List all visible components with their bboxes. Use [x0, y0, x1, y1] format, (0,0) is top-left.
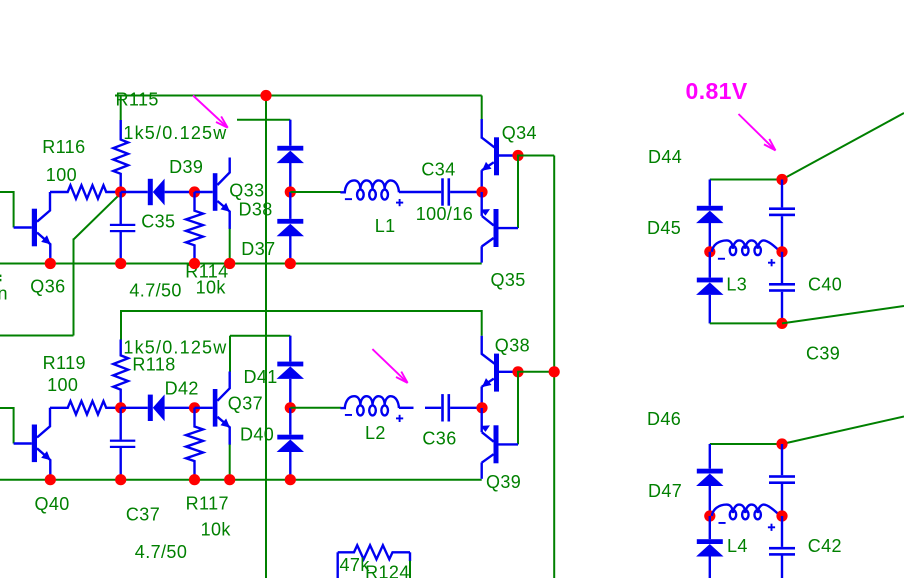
transistor Q37 body	[195, 389, 218, 427]
svg-text:Q38: Q38	[495, 336, 530, 356]
svg-text:C42: C42	[808, 536, 842, 556]
wire snubber2 top	[710, 443, 782, 445]
transistor Q38 base lead	[499, 371, 518, 373]
svg-text:C35: C35	[141, 211, 175, 231]
node junction D40 / rail	[285, 474, 296, 485]
transistor Q38 body	[494, 354, 499, 392]
svg-text:L3: L3	[726, 274, 747, 294]
node junction L3/C40	[776, 246, 787, 257]
capacitor C34	[399, 178, 482, 205]
resistor R124	[338, 545, 410, 578]
label D45	[647, 218, 681, 238]
transistor Q33 body	[195, 173, 218, 211]
svg-text:C37: C37	[126, 504, 160, 524]
capacitor C36	[425, 394, 482, 421]
svg-text:10k: 10k	[201, 519, 232, 539]
transistor Q34 body	[494, 137, 499, 175]
svg-text:100: 100	[46, 165, 77, 185]
svg-text:Q34: Q34	[502, 123, 537, 143]
transistor Q39 collector lead	[482, 454, 494, 479]
node junction Q33 emitter / rail	[224, 258, 235, 269]
wire long vertical bus	[265, 96, 267, 578]
svg-text:n: n	[0, 284, 8, 304]
svg-text:0.81V: 0.81V	[686, 78, 748, 104]
transistor Q36 body	[32, 209, 37, 247]
label D38	[239, 200, 273, 220]
label C40	[808, 274, 842, 294]
svg-text:D42: D42	[165, 379, 199, 399]
label Q36	[30, 277, 65, 297]
diode D42	[121, 394, 195, 421]
label R118	[132, 354, 175, 374]
label R114 value 10k	[196, 277, 227, 297]
node junction C36 / output	[476, 402, 487, 413]
label D37	[241, 239, 275, 259]
node junction D47/L4	[704, 510, 715, 521]
diode below L4 label	[696, 516, 723, 578]
label C34 value 100/16	[416, 204, 473, 224]
transistor Q34 emitter lead	[482, 162, 494, 192]
label D42	[165, 379, 199, 399]
wire Q37 emitter to rail	[229, 445, 231, 480]
wire Q38 collector drop	[481, 310, 483, 354]
wire clamp stub lower	[230, 336, 290, 372]
label R119 value 100	[47, 375, 78, 395]
node junction D39/R114/Q33 base	[189, 186, 200, 197]
svg-text:D41: D41	[244, 367, 278, 387]
capacitor C37	[110, 408, 135, 480]
wire snubber2 output diagonal	[782, 417, 904, 445]
transistor Q33 collector lead	[217, 158, 229, 186]
node junction R116/R115/C35/D39	[115, 186, 126, 197]
label L3	[726, 274, 747, 294]
transistor Q35 collector lead	[482, 238, 494, 263]
wire input elbow to Q36 base	[0, 191, 14, 228]
svg-text:D38: D38	[239, 200, 273, 220]
wire clamp node to L1	[290, 191, 341, 193]
wire snubber1 bottom	[710, 322, 782, 324]
wire R115 top stub	[120, 95, 122, 121]
node junction snubber1 bottom	[776, 318, 787, 329]
wire snubber1 top	[710, 179, 782, 181]
diode D47 (upper)	[696, 444, 723, 516]
label R114	[185, 261, 228, 281]
node junction Q34 base net	[512, 150, 523, 161]
label L2	[365, 423, 386, 443]
svg-text:D37: D37	[241, 239, 275, 259]
node junction top rail / bus	[260, 90, 271, 101]
svg-text:L2: L2	[365, 423, 386, 443]
transistor Q34 collector lead	[481, 137, 494, 147]
wire Q34 base net to right bus	[518, 156, 554, 578]
label L4	[727, 536, 748, 556]
wire Q34 collector to top rail	[481, 119, 483, 139]
svg-text:C39: C39	[806, 344, 840, 364]
label D40	[240, 425, 274, 445]
wire snubber1 bottom diagonal	[782, 306, 904, 323]
svg-text:D46: D46	[647, 409, 681, 429]
svg-text:1k5/0.125w: 1k5/0.125w	[123, 338, 227, 358]
svg-text:C34: C34	[421, 160, 455, 180]
node junction R117 / rail	[189, 474, 200, 485]
magenta probe arrow 0.81V	[739, 114, 776, 150]
label Q39	[486, 472, 521, 492]
label L1	[375, 216, 396, 236]
node junction D42/R117/Q37 base	[189, 402, 200, 413]
node junction snubber1 output	[776, 174, 787, 185]
transistor Q39 body	[494, 425, 519, 463]
node junction L4/C42	[776, 510, 787, 521]
node junction C35 / rail	[115, 258, 126, 269]
label D41	[244, 367, 278, 387]
inductor L3	[712, 240, 781, 266]
node junction Q38 base net	[512, 366, 523, 377]
node junction R119/R118/C37/D42	[115, 402, 126, 413]
label R115	[116, 90, 159, 110]
resistor R115	[113, 120, 128, 192]
node junction D37 / rail	[285, 258, 296, 269]
diode below L3 label	[696, 252, 723, 324]
svg-text:R116: R116	[42, 137, 85, 157]
wire V+ top rail	[115, 96, 482, 120]
label C39	[806, 344, 840, 364]
transistor Q33 emitter lead	[217, 201, 230, 229]
label C34	[421, 160, 455, 180]
svg-text:D40: D40	[240, 425, 274, 445]
label Q38	[495, 336, 530, 356]
diode D41	[277, 336, 304, 408]
transistor Q37 emitter lead	[217, 417, 230, 445]
diode D39	[121, 179, 195, 206]
label R119	[43, 353, 86, 373]
svg-text:D39: D39	[169, 157, 203, 177]
svg-text:C40: C40	[808, 274, 842, 294]
svg-text:D44: D44	[648, 147, 682, 167]
transistor Q40 base lead	[14, 442, 32, 444]
wire Q38 base net to right bus	[518, 371, 554, 373]
capacitor C42 (lower plates)	[769, 516, 795, 578]
diode D40	[277, 408, 304, 480]
label C35	[141, 211, 175, 231]
magenta probe arrow upper	[193, 96, 228, 128]
label 4.7/50 (C37 value)	[135, 542, 187, 562]
diode D45 (upper)	[696, 180, 723, 252]
svg-text:R119: R119	[43, 353, 86, 373]
label R117	[186, 493, 229, 513]
wire Q33 emitter to rail	[229, 229, 231, 264]
wire input elbow to Q40 base	[0, 407, 14, 444]
label C42	[808, 536, 842, 556]
resistor R114	[186, 192, 203, 264]
wire clamp stub upper	[237, 119, 290, 121]
label C36	[422, 429, 456, 449]
transistor Q40 body	[32, 425, 37, 463]
svg-text:100: 100	[47, 375, 78, 395]
svg-text:47k: 47k	[340, 555, 371, 575]
wire lower V rail	[121, 310, 482, 340]
resistor R118	[113, 340, 128, 408]
wire feedback diagonal from node R115/C35	[0, 193, 121, 335]
node junction D38/D37/L1	[285, 186, 296, 197]
wire clamp node to L2	[290, 407, 341, 409]
magenta probe arrow lower	[372, 349, 407, 383]
label 0.81V	[686, 78, 748, 104]
label input net n (clipped)	[0, 275, 8, 304]
transistor Q37 collector lead	[217, 372, 229, 401]
label Q40	[35, 494, 70, 514]
capacitor C40	[769, 252, 795, 324]
resistor R116	[50, 185, 121, 198]
svg-text:R124: R124	[365, 563, 410, 578]
label R118 value 1k5/0.125w	[123, 338, 227, 358]
wire Q35 base drop	[517, 155, 519, 229]
transistor Q36 emitter lead	[37, 233, 51, 264]
svg-text:L1: L1	[375, 216, 396, 236]
label R116 value 100	[46, 165, 77, 185]
label D39	[169, 157, 203, 177]
svg-text:Q39: Q39	[486, 472, 521, 492]
inductor L2	[340, 396, 413, 422]
resistor R119	[50, 401, 121, 414]
svg-text:4.7/50: 4.7/50	[135, 542, 187, 562]
node junction Q36 emitter / rail	[45, 258, 56, 269]
label 4.7/50 (C35 value)	[129, 280, 181, 300]
label Q34	[502, 123, 537, 143]
svg-text:Q40: Q40	[35, 494, 70, 514]
transistor Q40 emitter lead	[37, 448, 51, 479]
wire Q39 base drop	[517, 371, 519, 445]
inductor L1	[340, 180, 403, 206]
node junction C37 / rail	[115, 474, 126, 485]
wire lower emitter rail	[0, 479, 482, 481]
wire snubber1 output diagonal	[782, 113, 904, 180]
node junction Q40 emitter / rail	[45, 474, 56, 485]
svg-text:L4: L4	[727, 536, 748, 556]
node junction snubber2 output	[776, 438, 787, 449]
resistor R117	[186, 408, 203, 480]
svg-text:1k5/0.125w: 1k5/0.125w	[123, 123, 227, 143]
svg-text:R115: R115	[116, 90, 159, 110]
transistor Q40 collector lead	[37, 408, 50, 438]
label D46	[647, 409, 681, 429]
label Q35	[491, 270, 526, 290]
node junction D41/D40/L2	[285, 402, 296, 413]
transistor Q36 base lead	[14, 226, 32, 228]
label R116	[42, 137, 85, 157]
transistor Q35 body	[494, 209, 519, 247]
label Q37	[228, 393, 263, 413]
capacitor C42 (upper plates)	[769, 444, 795, 516]
svg-text:C36: C36	[422, 429, 456, 449]
node junction D45/L3	[704, 246, 715, 257]
label Q33	[229, 181, 264, 201]
label C37	[126, 504, 160, 524]
node junction R114 / rail	[189, 258, 200, 269]
svg-text:Q35: Q35	[491, 270, 526, 290]
svg-text:10k: 10k	[196, 277, 227, 297]
svg-text:D47: D47	[648, 481, 682, 501]
label R115 value 1k5/0.125w	[123, 123, 227, 143]
label R124 value 47k	[340, 555, 371, 575]
transistor Q38 collector lead	[481, 354, 494, 364]
diode D37	[277, 192, 304, 264]
transistor Q39 emitter lead	[480, 408, 493, 442]
capacitor C35	[110, 192, 135, 264]
node junction Q37 emitter / rail	[224, 474, 235, 485]
svg-text:Q37: Q37	[228, 393, 263, 413]
node junction base net / right bus	[549, 366, 560, 377]
capacitor C39 (upper plates)	[769, 180, 795, 252]
svg-text:Q36: Q36	[30, 277, 65, 297]
inductor L4	[712, 505, 781, 531]
transistor Q36 collector lead	[37, 192, 50, 222]
diode D38	[277, 120, 304, 192]
label R117 value 10k	[201, 519, 232, 539]
label D44	[648, 147, 682, 167]
svg-text:4.7/50: 4.7/50	[129, 280, 181, 300]
svg-text:R117: R117	[186, 493, 229, 513]
label R124	[365, 563, 410, 578]
transistor Q35 emitter lead	[480, 192, 493, 225]
svg-text:D45: D45	[647, 218, 681, 238]
transistor Q38 emitter lead	[482, 378, 494, 408]
svg-text:100/16: 100/16	[416, 204, 473, 224]
svg-text:Q33: Q33	[229, 181, 264, 201]
wire upper emitter rail	[0, 263, 482, 265]
transistor Q34 base lead	[499, 154, 518, 156]
label D47	[648, 481, 682, 501]
node junction C34 / output	[476, 186, 487, 197]
